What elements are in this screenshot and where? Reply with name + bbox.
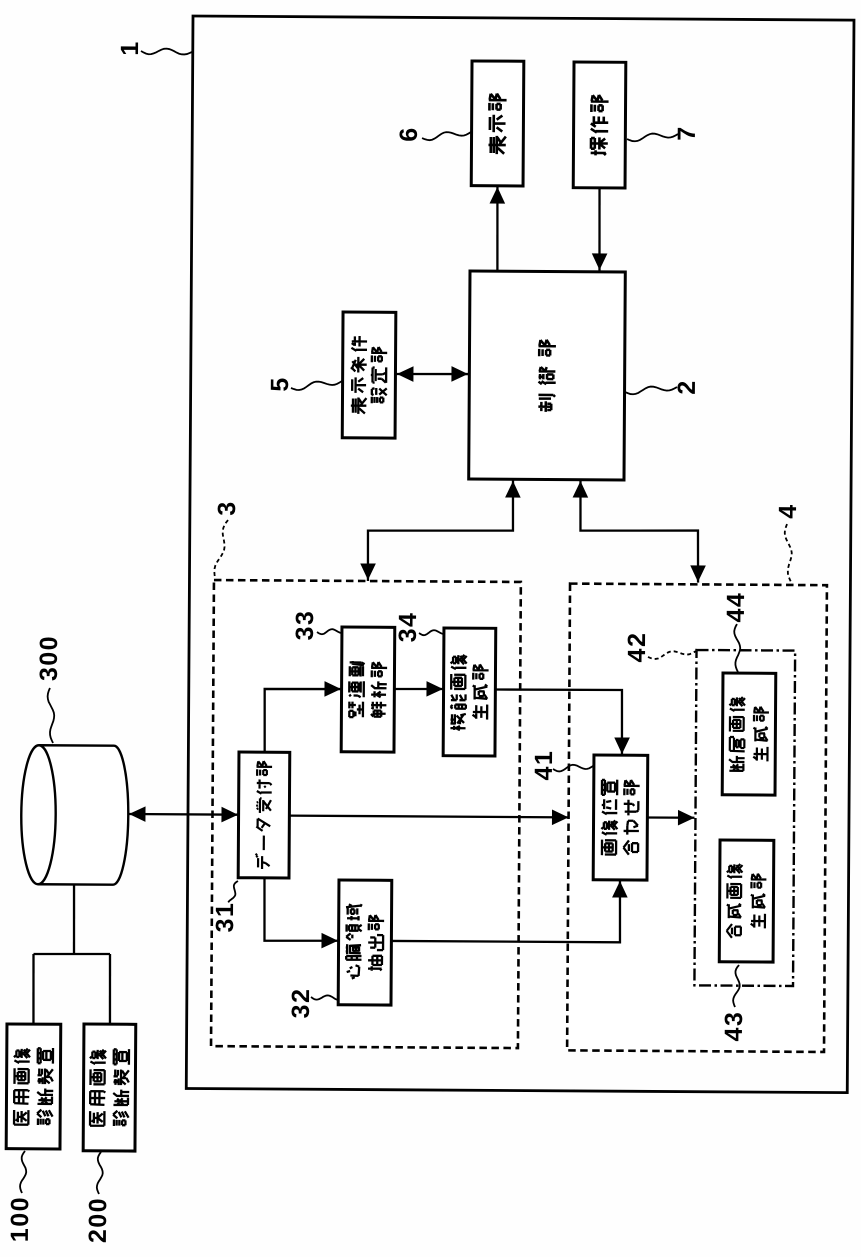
dashed leader for 42 bbox=[648, 651, 696, 660]
arrowhead right into データ受付部 bbox=[221, 807, 238, 823]
text 画像位置合わせ部 bbox=[601, 780, 639, 856]
box: data reception unit データ受付部 (31) bbox=[238, 752, 290, 878]
arrowhead right into 制御部 bbox=[451, 366, 468, 382]
arrowhead right at dashed box 4 edge bbox=[552, 809, 569, 825]
leader for 33 bbox=[317, 629, 341, 634]
svg-text:31: 31 bbox=[211, 902, 239, 933]
box: composite image generation unit 合成画像生成部 (43) bbox=[719, 840, 774, 962]
wire: setting <-> control bbox=[396, 372, 469, 375]
svg-text:34: 34 bbox=[394, 611, 422, 642]
svg-text:7: 7 bbox=[673, 125, 701, 141]
leader for 34 bbox=[419, 630, 443, 635]
arrowhead left into cylinder bbox=[129, 806, 146, 822]
box: medical image diagnostic apparatus 医用画像診断装置 (200) bbox=[83, 1024, 136, 1151]
leader for label 1 bbox=[141, 48, 192, 54]
svg-text:32: 32 bbox=[287, 988, 315, 1019]
leader for 44 bbox=[734, 624, 740, 672]
svg-text:2: 2 bbox=[673, 379, 701, 395]
arrowhead right into 心臓領域抽出部 bbox=[321, 933, 338, 949]
arrowhead up into 表示部 bbox=[490, 187, 506, 204]
dash-dot unit (42) bbox=[694, 650, 795, 986]
outer frame: image processing apparatus (1) bbox=[186, 16, 854, 1093]
leader for 200 bbox=[97, 1152, 103, 1194]
leader for 300 bbox=[47, 688, 54, 743]
text 制御部 bbox=[538, 340, 556, 412]
svg-text:3: 3 bbox=[213, 500, 241, 516]
wire: data reception to heart region extraction bbox=[264, 878, 338, 941]
box: display unit 表示部 (6) bbox=[471, 61, 524, 186]
text 心臓領域抽出部 bbox=[346, 904, 385, 979]
text 表示部 bbox=[488, 93, 506, 154]
text データ受付部 bbox=[255, 761, 272, 869]
arrowhead right into dash-dot box 42 bbox=[678, 810, 695, 826]
leader for 31 bbox=[228, 881, 238, 902]
leader for 5 bbox=[291, 381, 342, 391]
wire: heart region to registration bbox=[391, 880, 620, 943]
text 医用画像診断装置 (200) bbox=[90, 1049, 130, 1126]
text 表示条件設定部 bbox=[351, 336, 387, 414]
arrowhead left into 表示条件設定部 bbox=[397, 366, 414, 382]
box: functional image generation unit 機能画像生成部 (34) bbox=[443, 628, 496, 756]
dashed unit: analysis section (3) bbox=[211, 580, 521, 1048]
svg-text:43: 43 bbox=[720, 1011, 748, 1042]
arrowhead down into 画像位置合わせ部 bbox=[614, 737, 630, 754]
box: control unit 制御部 (2) bbox=[469, 271, 626, 480]
wire: wall motion to functional image bbox=[394, 688, 443, 691]
text 機能画像生成部 bbox=[450, 655, 488, 731]
box: image registration unit 画像位置合わせ部 (41) bbox=[593, 755, 648, 880]
text 断層画像生成部 bbox=[729, 697, 769, 771]
leader for 100 bbox=[20, 1151, 26, 1193]
arrowhead right into 壁運動解析部 bbox=[324, 681, 341, 697]
wire: functional image to registration bbox=[495, 689, 623, 754]
wire: cylinder down bbox=[72, 884, 75, 954]
text 合成画像生成部 bbox=[726, 864, 766, 938]
arrowhead down into dashed box 4 bbox=[690, 565, 706, 582]
dashed leader for 4 bbox=[784, 524, 791, 582]
wire: down to apparatus 200 bbox=[108, 954, 111, 1024]
dashed leader for 3 bbox=[214, 520, 228, 578]
wire: operation to control bbox=[599, 188, 600, 271]
leader for 7 bbox=[627, 133, 678, 141]
leader for 2 bbox=[625, 386, 677, 394]
arrowhead up into 制御部 left bbox=[505, 481, 521, 498]
svg-text:41: 41 bbox=[530, 750, 558, 781]
leader for 43 bbox=[733, 965, 740, 1007]
svg-text:1: 1 bbox=[116, 40, 144, 56]
box: wall motion analysis unit 壁運動解析部 (33) bbox=[341, 627, 395, 752]
wire: data reception to wall motion analysis bbox=[264, 689, 341, 753]
arrowhead down into dashed box 3 bbox=[360, 563, 376, 580]
dashed unit: image generation section (4) bbox=[567, 584, 827, 1052]
box: operation unit 操作部 (7) bbox=[573, 62, 626, 188]
wire: control <-> generation section 4 bbox=[580, 480, 699, 583]
svg-text:42: 42 bbox=[623, 632, 651, 663]
wire: database <-> data reception bbox=[128, 813, 239, 816]
leader for 32 bbox=[311, 995, 338, 1000]
svg-text:4: 4 bbox=[774, 503, 802, 519]
cylinder: image storage database (300) bbox=[21, 745, 129, 885]
svg-text:200: 200 bbox=[84, 1197, 112, 1243]
svg-text:5: 5 bbox=[266, 376, 294, 392]
svg-text:33: 33 bbox=[291, 610, 319, 641]
wire: split horizontal bbox=[34, 952, 111, 955]
svg-text:300: 300 bbox=[35, 635, 63, 681]
arrowhead up into 画像位置合わせ部 bbox=[612, 881, 628, 898]
leader for 41 bbox=[553, 765, 593, 772]
svg-text:44: 44 bbox=[722, 592, 750, 623]
leader for 6 bbox=[422, 132, 471, 141]
wire: control <-> analysis section 3 bbox=[368, 479, 514, 582]
wire: down to apparatus 100 bbox=[32, 954, 35, 1024]
wire: registration to unit 42 bbox=[647, 816, 694, 819]
box: medical image diagnostic apparatus 医用画像診断装置 (100) bbox=[6, 1024, 61, 1149]
svg-text:100: 100 bbox=[6, 1196, 34, 1242]
svg-text:6: 6 bbox=[395, 126, 423, 142]
arrowhead up into 制御部 right bbox=[573, 481, 589, 498]
arrowhead right into 機能画像生成部 bbox=[426, 681, 443, 697]
wire: control to display bbox=[497, 186, 498, 271]
arrowhead down into 制御部 bbox=[592, 253, 608, 270]
box: display condition setting unit 表示条件設定部 (5) bbox=[342, 312, 396, 438]
box: tomographic image generation unit 断層画像生成部 (44) bbox=[722, 673, 776, 795]
box: heart region extraction unit 心臓領域抽出部 (32) bbox=[338, 880, 392, 1005]
text 医用画像診断装置 (100) bbox=[14, 1048, 54, 1125]
wire: data reception to section 4 bbox=[289, 816, 568, 818]
text 操作部 bbox=[590, 95, 608, 156]
text 壁運動解析部 bbox=[348, 661, 387, 717]
